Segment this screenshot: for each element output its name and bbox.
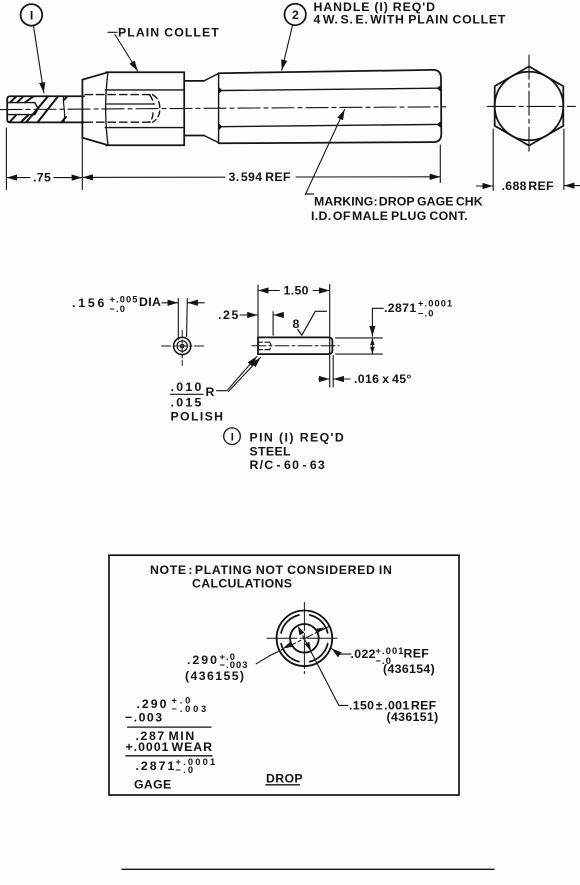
svg-text:PLAIN COLLET: PLAIN COLLET — [118, 26, 220, 40]
svg-text:1.50: 1.50 — [284, 284, 309, 298]
svg-text:.290: .290 — [187, 653, 219, 667]
svg-text:REF: REF — [404, 646, 430, 660]
leader .022 — [332, 649, 351, 655]
svg-text:.022: .022 — [351, 647, 376, 661]
svg-text:+.0001 WEAR: +.0001 WEAR — [126, 740, 214, 754]
pin end view — [162, 331, 204, 366]
balloon 1 (top view callout) — [21, 4, 43, 26]
svg-text:8: 8 — [293, 317, 300, 331]
svg-text:DIA: DIA — [139, 295, 161, 309]
collet hidden bore (dashed) — [85, 95, 160, 123]
svg-text:2: 2 — [292, 8, 299, 22]
svg-text:−.003: −.003 — [125, 711, 164, 725]
label PLAIN COLLET — [108, 26, 220, 40]
dimension .75 — [6, 128, 82, 190]
label DROP (underlined) — [266, 772, 303, 786]
svg-text:DROP: DROP — [266, 772, 303, 786]
label PIN (1) REQ'D / STEEL / R/C-60-63 — [250, 430, 346, 472]
svg-text:R/C - 60 - 63: R/C - 60 - 63 — [250, 458, 326, 472]
svg-text:STEEL: STEEL — [250, 444, 292, 458]
collet — [82, 72, 184, 145]
svg-text:+.0001: +.0001 — [418, 299, 453, 309]
svg-text:PIN (I) REQ'D: PIN (I) REQ'D — [250, 430, 346, 444]
dimension .016 x 45 chamfer — [319, 356, 412, 388]
surface finish mark 8 — [293, 311, 327, 335]
dimension 3.594 REF — [83, 145, 441, 184]
leader from PLAIN COLLET to collet — [115, 35, 138, 72]
leader from balloon 2 to handle — [282, 25, 293, 70]
handle hex body — [204, 70, 441, 143]
svg-text:.156: .156 — [72, 296, 107, 310]
svg-text:4 W. S. E. WITH PLAIN COLLET: 4 W. S. E. WITH PLAIN COLLET — [314, 12, 507, 26]
svg-text:(436154): (436154) — [383, 662, 435, 676]
balloon 1 (pin detail) — [224, 428, 241, 445]
hex end view of handle — [487, 55, 575, 154]
balloon 2 (handle callout) — [285, 4, 306, 25]
label HANDLE (1) REQ'D — [314, 0, 507, 26]
svg-text:(436151): (436151) — [387, 710, 439, 724]
svg-text:+.005: +.005 — [110, 294, 139, 304]
svg-text:.016 x 45°: .016 x 45° — [354, 372, 412, 386]
svg-text:−.003: −.003 — [172, 704, 210, 714]
label .290 upper — [185, 652, 249, 683]
svg-text:−.0: −.0 — [110, 304, 126, 314]
svg-text:+.001: +.001 — [376, 646, 405, 656]
svg-text:I.D. OF MALE PLUG CONT.: I.D. OF MALE PLUG CONT. — [311, 209, 468, 223]
pin side view — [252, 337, 339, 354]
svg-text:−.0: −.0 — [418, 308, 434, 318]
svg-text:(436155): (436155) — [185, 669, 245, 683]
gage calculation stack — [125, 696, 217, 792]
svg-text:CALCULATIONS: CALCULATIONS — [192, 577, 292, 591]
note box border — [109, 555, 459, 795]
dimension .156 DIA — [72, 294, 204, 339]
pin shown in section (hatched) — [7, 96, 84, 122]
dimension 1.50 — [258, 284, 330, 337]
svg-text:GAGE: GAGE — [134, 778, 172, 792]
svg-text:.290: .290 — [137, 697, 169, 711]
svg-text:.688 REF: .688 REF — [502, 179, 554, 193]
dimension .25 — [218, 308, 282, 335]
svg-text:POLISH: POLISH — [171, 409, 225, 423]
svg-text:.2871: .2871 — [136, 759, 177, 773]
label .022 — [351, 646, 436, 676]
leader from balloon 1 to pin — [34, 26, 44, 93]
svg-text:MARKING: DROP GAGE CHK: MARKING: DROP GAGE CHK — [314, 194, 483, 208]
gage end view outer circle — [277, 611, 333, 667]
svg-text:3. 594 REF: 3. 594 REF — [229, 170, 291, 184]
label .150 — [349, 699, 439, 725]
svg-text:.75: .75 — [33, 171, 51, 185]
svg-text:−.0: −.0 — [176, 765, 196, 775]
svg-text:I: I — [231, 432, 234, 444]
svg-text:R: R — [206, 385, 215, 399]
svg-text:.010: .010 — [171, 380, 204, 394]
label MARKING — [311, 194, 483, 223]
gage centerlines — [267, 603, 340, 674]
assembly centerline — [0, 107, 446, 110]
note text — [150, 563, 393, 590]
gage inner hole circle — [290, 624, 319, 653]
dimension .688 REF — [477, 129, 580, 193]
gage ring (broken at cardinals) — [281, 615, 328, 662]
dimension .2871 dia — [336, 299, 454, 354]
measurement diagonal .290 (dash-dot with arrows) — [256, 626, 329, 664]
svg-text:.25: .25 — [218, 308, 240, 322]
measurement diagonal .150 (leader and arrows) — [298, 626, 348, 706]
svg-text:I: I — [30, 9, 34, 23]
svg-text:NOTE : PLATING NOT CONSIDERE: NOTE : PLATING NOT CONSIDERED IN — [150, 563, 393, 577]
collet neck — [184, 81, 204, 136]
svg-text:.2871: .2871 — [384, 301, 417, 315]
svg-text:.015: .015 — [171, 396, 204, 410]
radius callout .010/.015 R POLISH — [171, 357, 261, 424]
MARKING leader — [305, 110, 344, 195]
footer rule — [122, 868, 494, 870]
